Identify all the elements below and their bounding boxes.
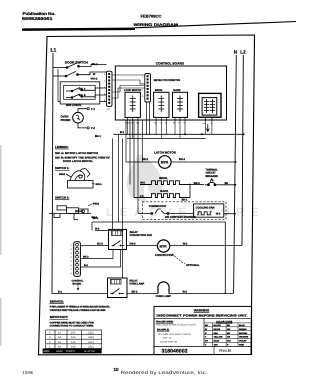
svg-text:BK-1: BK-1	[95, 135, 101, 138]
cooling fan element	[197, 212, 212, 215]
svg-text:BROWN: BROWN	[239, 332, 248, 335]
svg-text:SW.B: SW.B	[59, 173, 65, 176]
svg-text:B-2: B-2	[84, 264, 89, 267]
svg-text:DOOR LATCH SWITCH.: DOOR LATCH SWITCH.	[63, 160, 93, 163]
svg-text:BREAKER: BREAKER	[206, 175, 219, 178]
bake element	[134, 194, 190, 198]
svg-text:MTR: MTR	[160, 245, 168, 249]
svg-text:MW LEADS: MW LEADS	[66, 103, 81, 107]
svg-text:TEMP°C: TEMP°C	[66, 350, 75, 353]
wire L1 rail	[52, 53, 53, 293]
svg-text:BK-2: BK-2	[179, 158, 186, 161]
wire breaker to N	[219, 184, 236, 186]
svg-text:2324: 2324	[88, 336, 94, 339]
svg-text:COMPATIBLE WIRE TYPE,GAGE & TE: COMPATIBLE WIRE TYPE,GAGE & TERMINALS MU…	[50, 309, 106, 312]
border frame	[39, 35, 255, 355]
svg-text:L2: L2	[240, 50, 246, 55]
svg-text:BROIL: BROIL	[159, 176, 168, 180]
wires relay pins to buses	[128, 121, 212, 138]
thermostat TH1	[138, 209, 194, 214]
door switch inner box	[64, 85, 95, 99]
svg-text:VIO-2: VIO-2	[91, 78, 98, 81]
wire bake-broil link	[189, 185, 191, 198]
svg-text:Y-2: Y-2	[91, 126, 96, 130]
svg-text:BK-2: BK-2	[132, 291, 138, 294]
svg-text:BK-2: BK-2	[83, 256, 89, 259]
svg-text:2321: 2321	[88, 345, 94, 348]
svg-text:WHITE: WHITE	[214, 328, 221, 331]
svg-text:GN: GN	[227, 328, 231, 331]
svg-text:TRACER WIRE:: TRACER WIRE:	[156, 321, 174, 324]
svg-text:CONTROL BOARD: CONTROL BOARD	[156, 62, 185, 66]
control board box	[115, 66, 226, 120]
connector J2 strip on board	[142, 74, 151, 103]
svg-text:BK-1: BK-1	[182, 199, 188, 202]
svg-text:PROBE: PROBE	[61, 118, 71, 122]
svg-text:SWITCH 2:: SWITCH 2:	[55, 195, 69, 199]
svg-text:DOOR SWITCH: DOOR SWITCH	[65, 61, 89, 65]
svg-text:3173: 3173	[88, 341, 94, 344]
relay oven lamp box	[108, 278, 128, 298]
svg-text:MTR: MTR	[161, 161, 169, 165]
ground arrow under board	[206, 124, 209, 132]
svg-text:LOCK MOTOR: LOCK MOTOR	[124, 89, 141, 92]
svg-text:COOLING FAN: COOLING FAN	[196, 207, 215, 210]
relay broil	[154, 89, 169, 125]
svg-text:BN: BN	[227, 332, 231, 335]
wire door box to strip	[58, 69, 107, 102]
warning box	[154, 306, 252, 354]
svg-text:BAKE: BAKE	[160, 189, 168, 193]
relay convection fan box	[109, 229, 127, 249]
svg-text:NO: NO	[154, 122, 157, 125]
svg-text:GRAY: GRAY	[214, 340, 220, 343]
wire strip to relay	[81, 245, 109, 247]
svg-text:318046002: 318046002	[162, 349, 188, 355]
svg-text:SW.B: SW.B	[93, 202, 99, 205]
scan edge smudge	[0, 145, 2, 255]
svg-text:UL STYLE: UL STYLE	[84, 350, 95, 353]
svg-text:BK-2: BK-2	[93, 217, 99, 220]
switch 2 drawing	[49, 206, 91, 220]
svg-text:Rev.B: Rev.B	[219, 348, 231, 353]
svg-text:BROIL: BROIL	[155, 89, 163, 92]
switch 1 drawing	[66, 169, 93, 188]
svg-text:OR-3: OR-3	[130, 243, 137, 246]
wire fan to N	[224, 213, 235, 215]
switch SW.B inside	[66, 94, 107, 98]
switch S2 door	[53, 71, 107, 77]
svg-text:150: 150	[71, 345, 76, 348]
wire motor right to N	[171, 161, 235, 163]
svg-text:RED WIRE WITH WHITE TRACER,: RED WIRE WITH WHITE TRACER,	[158, 333, 192, 336]
svg-text:PINK: PINK	[239, 344, 244, 347]
bus wire A	[113, 133, 243, 135]
svg-text:BK-1: BK-1	[92, 63, 99, 66]
svg-text:OR: OR	[227, 336, 231, 339]
svg-text:ORANGE: ORANGE	[239, 336, 249, 339]
svg-text:Y-2: Y-2	[140, 195, 144, 198]
svg-text:SW.A: SW.A	[96, 183, 102, 186]
svg-text:W-2: W-2	[183, 243, 188, 246]
svg-text:150: 150	[71, 336, 76, 339]
watermark flame	[127, 154, 163, 202]
svg-text:BAKE: BAKE	[173, 89, 180, 92]
svg-text:L1: L1	[51, 48, 57, 54]
header rule	[22, 28, 135, 31]
svg-text:OPTIONAL: OPTIONAL	[186, 264, 200, 267]
svg-text:WIRE: WIRE	[44, 350, 50, 353]
wire relay to motor	[127, 245, 158, 247]
thermal circuit breaker CB1	[205, 179, 219, 186]
wire motor left	[126, 161, 159, 163]
svg-text:RED: RED	[214, 332, 219, 335]
thermostat dashed enclosure	[142, 202, 226, 220]
door switch outer box	[60, 82, 100, 104]
svg-text:SW. A: MOTOR LATCH SWITCH: SW. A: MOTOR LATCH SWITCH	[55, 152, 98, 155]
oven probe	[73, 112, 84, 123]
svg-text:VIOLET: VIOLET	[239, 340, 247, 343]
svg-text:EXAMPLE:: EXAMPLE:	[157, 329, 170, 332]
wire top bus y222	[92, 222, 225, 293]
probe wire Y-2	[78, 123, 87, 128]
svg-text:ON CERTAIN MODELS: ON CERTAIN MODELS	[165, 215, 196, 219]
svg-text:R/W - 12: R/W - 12	[163, 337, 172, 340]
svg-text:SW. B: SW. B	[79, 94, 86, 97]
wire lamp to N	[169, 293, 234, 295]
svg-text:105: 105	[71, 332, 76, 335]
bus risers from board	[126, 102, 150, 213]
switch S1 door	[53, 63, 107, 68]
cooling fan box	[194, 204, 224, 217]
svg-text:W-2: W-2	[183, 291, 188, 294]
relay DLB double-line-break	[199, 93, 221, 121]
wires J1 to J2	[112, 75, 145, 98]
bottom wire L1 to relay	[52, 292, 108, 295]
svg-text:B-1: B-1	[120, 131, 125, 134]
switch SW.A inside	[66, 88, 107, 92]
probe wire Y-1	[78, 109, 87, 113]
svg-text:SERVICE:: SERVICE:	[50, 299, 64, 303]
svg-text:CONVECTION FAN: CONVECTION FAN	[130, 234, 153, 237]
svg-text:W-2: W-2	[140, 182, 145, 185]
svg-text:CONNECTIONS TO CONDUCT WIRE.: CONNECTIONS TO CONDUCT WIRE.	[50, 325, 94, 328]
svg-text:SEE RELAY PIN CONNECTION: SEE RELAY PIN CONNECTION	[154, 79, 181, 82]
svg-text:VIO: VIO	[227, 340, 231, 343]
svg-text:5995288061: 5995288061	[22, 16, 54, 21]
svg-text:Y-1: Y-1	[91, 107, 96, 111]
svg-text:GREEN: GREEN	[239, 328, 247, 331]
connector J1 strip	[104, 71, 112, 111]
svg-text:BK: BK	[225, 182, 229, 185]
svg-text:10: 10	[114, 367, 119, 372]
svg-text:SWITCH 1:: SWITCH 1:	[55, 166, 69, 170]
svg-text:2321: 2321	[88, 332, 94, 335]
convection motor M2	[158, 240, 170, 252]
svg-text:THERMOSTAT: THERMOSTAT	[149, 205, 167, 208]
svg-text:SW. A: SW. A	[79, 87, 86, 90]
ground stub under J3	[77, 287, 79, 291]
svg-text:BU-2: BU-2	[97, 243, 103, 246]
svg-text:DISCONNECT POWER BEFORE SERVIC: DISCONNECT POWER BEFORE SERVICING UNIT.	[156, 314, 247, 318]
wires strip to relay lower pins	[81, 250, 121, 268]
svg-text:GAGE: GAGE	[56, 350, 63, 353]
svg-text:LEGEND:: LEGEND:	[55, 145, 69, 149]
svg-text:W-2: W-2	[216, 212, 221, 215]
svg-text:WARNING: WARNING	[194, 308, 210, 312]
relay lock motor	[124, 89, 141, 125]
table footer row	[43, 349, 102, 354]
wire N rail	[234, 55, 237, 293]
lower connector J3 strip	[71, 242, 81, 277]
svg-text:(SW.A): (SW.A)	[75, 210, 83, 213]
svg-text:W-2: W-2	[95, 228, 100, 231]
svg-text:OVEN LAMP: OVEN LAMP	[129, 283, 144, 286]
svg-text:OVEN LAMP: OVEN LAMP	[156, 295, 172, 298]
bus wire B	[127, 137, 206, 139]
svg-text:TAN: TAN	[214, 344, 219, 347]
wire relay to lamp	[127, 293, 158, 295]
svg-text:BU: BU	[227, 324, 231, 327]
svg-text:SW. B: IDENTIFY THE SPECIFIC: SW. B: IDENTIFY THE SPECIFIC VIEW OF	[55, 156, 111, 159]
svg-text:YELLOW: YELLOW	[214, 336, 223, 339]
svg-text:IMPORTANT:: IMPORTANT:	[50, 315, 68, 319]
svg-text:FIRST COLOR IS WIRE, SECOND IS: FIRST COLOR IS WIRE, SECOND IS TRACER.	[156, 324, 197, 327]
broil element	[140, 181, 190, 185]
wire motor to L2	[170, 245, 242, 247]
svg-text:Rendered by LeadVenture, Inc.: Rendered by LeadVenture, Inc.	[121, 370, 208, 375]
svg-text:LATCH MOTOR: LATCH MOTOR	[154, 150, 177, 154]
oven lamp LP1	[158, 282, 169, 294]
svg-text:BK-2: BK-2	[142, 158, 149, 161]
wire y230.6	[95, 230, 123, 232]
svg-text:BLUE: BLUE	[239, 324, 245, 327]
svg-text:10/96: 10/96	[23, 370, 34, 375]
svg-text:125: 125	[71, 341, 76, 344]
svg-text:BLACK: BLACK	[214, 324, 222, 327]
wire broil to breaker	[190, 184, 204, 186]
relay bake	[173, 89, 188, 125]
optional label	[172, 254, 185, 264]
wire L2 rail	[242, 55, 243, 246]
wire gauge table	[43, 330, 102, 353]
svg-text:B-1: B-1	[58, 290, 63, 293]
svg-text:BK: BK	[205, 324, 209, 327]
svg-text:W: W	[205, 328, 207, 331]
svg-text:CONVECTION: CONVECTION	[155, 253, 174, 257]
header publication number	[22, 11, 56, 21]
svg-text:COLOR WIRE NO.: COLOR WIRE NO.	[160, 341, 178, 344]
latch motor M1	[159, 156, 172, 169]
svg-text:FEB789CC: FEB789CC	[141, 15, 162, 19]
